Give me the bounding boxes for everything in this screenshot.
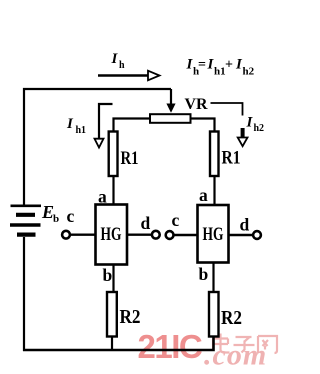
battery Eb: [10, 206, 41, 235]
resistor R1 left: [109, 132, 118, 177]
resistor R2 left: [107, 292, 117, 337]
wire: VR left terminal to R1 left: [114, 119, 151, 132]
svg-text:R1: R1: [222, 148, 241, 169]
terminal d left wire: [127, 233, 152, 235]
resistor R1 right: [210, 132, 219, 177]
svg-text:b: b: [103, 265, 113, 285]
formula Ih = Ih1 + Ih2: [186, 57, 255, 78]
wire: R2 left to bottom rail: [111, 337, 113, 351]
wire: bottom rail: [23, 337, 214, 351]
svg-text:+: +: [225, 58, 233, 73]
terminal d left circle: [152, 231, 160, 239]
terminal d right wire: [229, 234, 254, 236]
svg-text:a: a: [199, 185, 208, 205]
wire: battery positive up and across top to VR wiper: [24, 89, 171, 205]
resistor R2 right: [209, 292, 219, 337]
wire: battery negative down to bottom rail: [23, 237, 25, 351]
svg-text:I: I: [111, 51, 119, 67]
hall generator HG right: [198, 205, 229, 263]
terminal c left wire: [70, 233, 96, 235]
svg-text:d: d: [141, 213, 151, 233]
potentiometer VR: [150, 114, 191, 123]
svg-text:HG: HG: [101, 225, 122, 245]
svg-text:h: h: [119, 60, 125, 71]
svg-text:h2: h2: [243, 66, 255, 78]
current arrow Ih: [98, 71, 160, 81]
terminal c left circle: [62, 231, 70, 239]
svg-text:h1: h1: [76, 125, 87, 136]
wire: HG left pin b to R2 left: [112, 265, 114, 293]
svg-text:h2: h2: [254, 123, 265, 134]
svg-text:R2: R2: [221, 308, 242, 329]
wire: R1 left to HG left pin a: [112, 176, 114, 205]
svg-text:c: c: [172, 210, 180, 230]
wire: VR right terminal to R1 right: [191, 119, 215, 132]
current arrow Ih2: [238, 128, 248, 146]
terminal d right circle: [253, 231, 261, 239]
hall generator HG left: [96, 205, 128, 265]
svg-text:c: c: [67, 206, 75, 226]
svg-text:d: d: [240, 215, 250, 235]
svg-text:b: b: [199, 264, 209, 284]
svg-text:VR: VR: [185, 96, 208, 113]
current arrow Ih1: [95, 104, 113, 148]
svg-text:h1: h1: [214, 66, 226, 78]
svg-text:I: I: [66, 116, 74, 132]
terminal c right circle: [166, 231, 174, 239]
svg-text:R2: R2: [120, 307, 141, 328]
svg-text:HG: HG: [203, 225, 224, 245]
svg-text:R1: R1: [121, 148, 139, 169]
wire: HG right pin b to R2 right: [212, 263, 214, 293]
VR wiper arrow into potentiometer: [166, 89, 175, 113]
svg-text:b: b: [53, 213, 59, 225]
terminal c right wire: [174, 234, 198, 236]
wire: R1 right to HG right pin a: [213, 176, 215, 206]
svg-text:=: =: [198, 58, 206, 73]
svg-text:I: I: [246, 115, 254, 131]
VR label pointer line: [211, 103, 243, 116]
